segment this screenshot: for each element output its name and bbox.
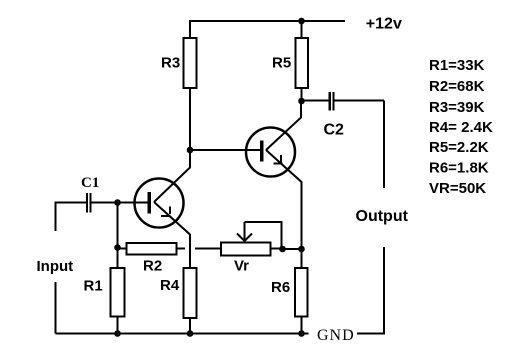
svg-text:R3: R3 — [161, 55, 180, 72]
resistor R5 — [296, 38, 309, 88]
junction dot top rail / R5 — [298, 18, 305, 25]
capacitor C1 plates — [87, 193, 91, 213]
svg-text:R3=39K: R3=39K — [429, 99, 485, 116]
svg-text:R4= 2.4K: R4= 2.4K — [429, 119, 493, 136]
svg-text:R6: R6 — [271, 279, 290, 296]
wire Vr wiper feedback — [245, 222, 282, 249]
transistor Q2 emitter arrow barbs — [274, 155, 283, 164]
wire Q1 base lead — [118, 202, 149, 204]
svg-text:C2: C2 — [324, 122, 345, 139]
svg-text:Input: Input — [37, 258, 74, 275]
wire Vr emitter rail to R6 — [283, 248, 302, 250]
resistor R3 — [184, 38, 197, 88]
wire to Vr left lead — [195, 248, 221, 250]
resistor R2 — [127, 243, 177, 255]
transistor Q1 base bar — [148, 192, 152, 214]
wire Q2 emitter — [266, 150, 302, 249]
junction dot R2 left / R1 top — [114, 244, 121, 251]
svg-text:R5=2.2K: R5=2.2K — [429, 139, 489, 156]
resistor R4 — [184, 268, 197, 318]
junction dot Vr wiper node — [279, 246, 286, 253]
wire Q2 collector — [266, 101, 301, 150]
wire GND right stub — [359, 333, 385, 335]
wire R4 bottom lead — [189, 318, 191, 334]
transistor Q1 body circle — [135, 179, 184, 228]
resistor R1 — [111, 268, 125, 317]
svg-text:C1: C1 — [81, 175, 99, 191]
svg-text:R1=33K: R1=33K — [429, 57, 485, 74]
wire base node down to R1 — [117, 203, 119, 269]
svg-text:R1: R1 — [84, 278, 103, 295]
wire output lower to GND — [357, 247, 384, 334]
svg-text:R2: R2 — [143, 258, 162, 275]
wire R6 top lead — [301, 249, 303, 268]
capacitor C2 plates — [330, 92, 334, 111]
wire node A to Q2 base — [190, 149, 260, 151]
wire input lower bracket — [55, 282, 57, 334]
wire Q1 emitter — [154, 202, 190, 268]
junction dot ground R6 — [298, 330, 305, 337]
transistor Q2 base bar — [260, 141, 264, 162]
svg-text:R2=68K: R2=68K — [429, 78, 485, 95]
svg-text:R6=1.8K: R6=1.8K — [429, 160, 489, 177]
wire R6 bottom lead — [301, 317, 303, 335]
wire C2 right to output — [335, 100, 385, 102]
wire ground rail — [56, 333, 309, 335]
junction dot R5 / C2 / Q2 collector — [298, 98, 305, 105]
wire C2 left — [302, 100, 330, 102]
wire input coupling left bracket — [56, 203, 87, 232]
wire Q1 collector — [154, 150, 190, 202]
wire R3 bottom lead to node A — [189, 88, 191, 150]
junction dot Q2 emitter / R6 — [298, 246, 305, 253]
svg-text:Output: Output — [356, 208, 409, 225]
wire R2 left lead — [118, 248, 127, 250]
svg-text:Vr: Vr — [234, 257, 249, 274]
svg-text:GND: GND — [317, 327, 355, 344]
wire R5 top lead — [301, 21, 303, 38]
wire +12v top rail — [190, 21, 345, 38]
potentiometer VR body — [221, 243, 271, 256]
svg-text:VR=50K: VR=50K — [429, 180, 486, 197]
wire C1 to base node — [92, 202, 118, 204]
potentiometer VR wiper arrowhead — [237, 234, 252, 242]
svg-text:R4: R4 — [160, 277, 180, 294]
junction dot Q1 base / C1 — [114, 199, 121, 206]
svg-text:+12v: +12v — [366, 16, 402, 33]
wire R2 right lead — [177, 248, 186, 250]
junction dot ground R4 — [187, 330, 194, 337]
wire Vr right lead — [271, 248, 284, 250]
wire output upper — [383, 101, 385, 189]
junction dot node A (R3 / Q1 collector / Q2 base) — [187, 147, 194, 154]
transistor Q1 emitter arrow barbs — [161, 207, 171, 216]
wire R5 bottom lead — [301, 88, 303, 101]
junction dot ground R1 — [114, 330, 121, 337]
wire R1 bottom lead — [117, 317, 119, 335]
wire Vr wiper arrow shaft — [244, 222, 246, 241]
transistor Q2 body circle — [246, 128, 295, 177]
svg-text:R5: R5 — [272, 55, 291, 72]
resistor R6 — [295, 268, 308, 317]
